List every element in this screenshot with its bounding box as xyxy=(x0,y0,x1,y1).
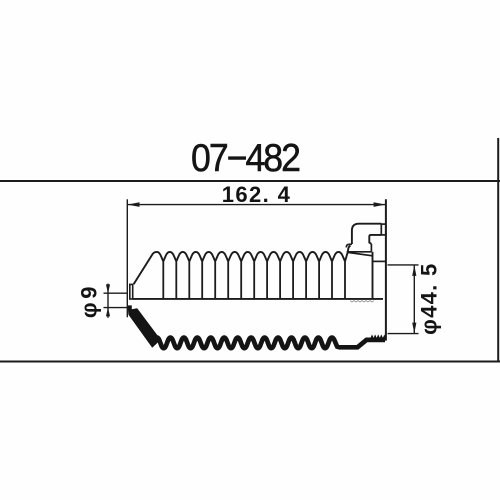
small end collar xyxy=(130,284,133,299)
svg-text:07−482: 07−482 xyxy=(191,136,299,180)
phi9 extension line bottom xyxy=(104,307,132,309)
bellows top profile xyxy=(134,246,351,285)
coil left hook xyxy=(128,305,161,347)
serration under large end xyxy=(350,301,374,302)
phi44.5 extension line bottom xyxy=(388,333,419,335)
coil spring wave xyxy=(155,338,385,349)
mount trunk top edge xyxy=(373,260,386,262)
phi44.5 arrow bottom xyxy=(412,323,416,334)
extension line right (162.4) / part right edge xyxy=(385,199,387,340)
phi9 arrow bottom xyxy=(106,308,110,317)
vent pipe end cap xyxy=(381,224,386,235)
bellows bottom line xyxy=(133,298,383,300)
arrowhead left xyxy=(128,202,140,207)
right border xyxy=(497,138,499,362)
svg-text:φ9: φ9 xyxy=(77,283,102,318)
top rule xyxy=(0,180,500,182)
neck band upper xyxy=(346,244,371,252)
bellows fold lines xyxy=(163,262,345,299)
neck shoulder xyxy=(348,252,373,255)
vent elbow pipe xyxy=(352,224,381,244)
phi9 dimension line xyxy=(107,284,109,318)
phi9 extension line top xyxy=(104,292,129,294)
large end right edge xyxy=(372,252,374,299)
svg-text:162. 4: 162. 4 xyxy=(222,182,292,207)
phi44.5 dimension line xyxy=(413,265,415,334)
phi44.5 arrow top xyxy=(412,265,416,276)
phi9 arrow top xyxy=(106,284,110,293)
phi44.5 extension line top xyxy=(388,264,419,266)
svg-text:φ44. 5: φ44. 5 xyxy=(416,262,441,334)
extension line left (162.4) xyxy=(126,199,128,317)
bottom rule xyxy=(0,361,500,363)
arrowhead right xyxy=(374,202,386,207)
dimension line 162.4 xyxy=(127,204,386,206)
coil end serration xyxy=(371,334,386,338)
